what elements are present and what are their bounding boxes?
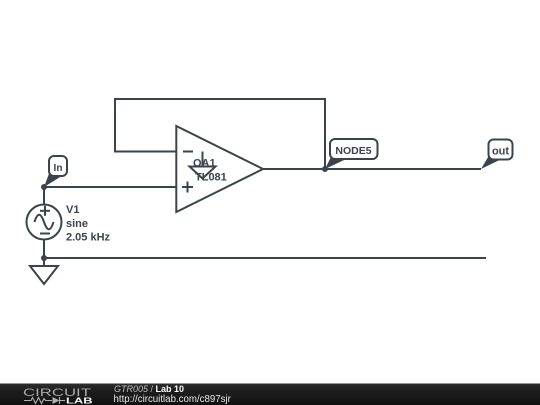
svg-text:out: out xyxy=(492,145,509,157)
svg-text:OA1: OA1 xyxy=(193,158,216,170)
svg-text:GTR005 / Lab 10: GTR005 / Lab 10 xyxy=(114,384,184,394)
svg-text:LAB: LAB xyxy=(66,397,93,405)
svg-text:2.05 kHz: 2.05 kHz xyxy=(66,231,111,243)
svg-text:http://circuitlab.com/c897sjr: http://circuitlab.com/c897sjr xyxy=(114,394,232,405)
svg-text:TL081: TL081 xyxy=(195,172,227,184)
svg-text:In: In xyxy=(54,163,63,174)
svg-text:V1: V1 xyxy=(66,204,79,216)
svg-text:NODE5: NODE5 xyxy=(335,145,371,157)
svg-text:sine: sine xyxy=(66,218,88,230)
